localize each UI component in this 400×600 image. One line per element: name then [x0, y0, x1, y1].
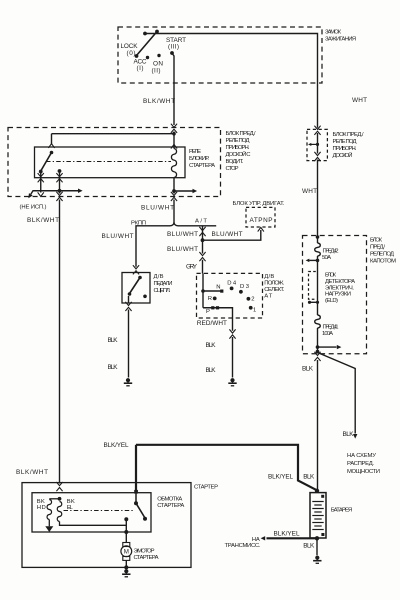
- svg-text:РЕЛЕ ПОД: РЕЛЕ ПОД: [333, 139, 357, 145]
- svg-text:BLK: BLK: [343, 431, 355, 438]
- svg-text:BLK/WHT: BLK/WHT: [27, 217, 59, 224]
- svg-text:РЕЛЕ ПОД: РЕЛЕ ПОД: [370, 252, 394, 258]
- svg-text:СЕЛЕКТ.: СЕЛЕКТ.: [264, 287, 284, 293]
- svg-text:ДОСКОЙ С: ДОСКОЙ С: [226, 150, 252, 158]
- svg-text:БЛОК: БЛОК: [370, 238, 383, 244]
- svg-text:ON: ON: [153, 61, 163, 68]
- svg-text:BLK: BLK: [302, 366, 314, 373]
- svg-text:БЛОК: БЛОК: [325, 273, 337, 279]
- svg-text:N: N: [216, 285, 220, 291]
- svg-text:ATPNP: ATPNP: [250, 217, 273, 224]
- svg-text:50А: 50А: [322, 255, 331, 261]
- svg-text:GRY: GRY: [186, 264, 198, 271]
- svg-text:БЛОК УПР. ДВИГАТ.: БЛОК УПР. ДВИГАТ.: [233, 201, 285, 207]
- svg-text:RED/WHT: RED/WHT: [197, 320, 227, 327]
- svg-text:АТ: АТ: [264, 293, 272, 299]
- svg-text:СЦЕПЛ.: СЦЕПЛ.: [154, 288, 171, 294]
- svg-text:R: R: [208, 296, 212, 302]
- svg-text:LOCK: LOCK: [121, 43, 139, 50]
- svg-text:ПРЕД.41: ПРЕД.41: [323, 325, 339, 331]
- svg-text:(НЕ ИСП.): (НЕ ИСП.): [20, 205, 47, 211]
- svg-text:ПРЕД./: ПРЕД./: [370, 245, 385, 251]
- svg-text:ОБМОТКА: ОБМОТКА: [157, 496, 182, 502]
- svg-text:ПОЛОЖ.: ПОЛОЖ.: [264, 280, 284, 286]
- svg-text:ЭЛЕКТРИЧ.: ЭЛЕКТРИЧ.: [325, 285, 354, 291]
- svg-text:БАТАРЕЯ: БАТАРЕЯ: [331, 507, 353, 513]
- svg-text:ПРИБОРН.: ПРИБОРН.: [226, 145, 250, 151]
- svg-text:BLK/YEL: BLK/YEL: [274, 531, 300, 538]
- svg-text:BLK: BLK: [108, 364, 119, 371]
- svg-text:БЛОК ПРЕД./: БЛОК ПРЕД./: [226, 131, 256, 137]
- svg-text:РЕЛЕ: РЕЛЕ: [189, 149, 201, 155]
- svg-text:M: M: [124, 549, 129, 556]
- svg-text:ДЕТЕКТОРА: ДЕТЕКТОРА: [325, 279, 355, 285]
- svg-text:BLK: BLK: [206, 342, 217, 349]
- svg-text:ТРАНСМИСС.: ТРАНСМИСС.: [225, 543, 261, 549]
- svg-text:(0): (0): [127, 50, 136, 57]
- svg-text:НА СХЕМУ: НА СХЕМУ: [347, 453, 376, 459]
- svg-text:BK: BK: [67, 499, 75, 505]
- svg-text:ДОСКОЙ: ДОСКОЙ: [333, 151, 353, 159]
- svg-text:BLK/YEL: BLK/YEL: [268, 474, 293, 481]
- svg-text:BLK/WHT: BLK/WHT: [143, 98, 175, 105]
- svg-text:ВОДИТ.: ВОДИТ.: [226, 159, 244, 165]
- svg-text:BLU/WHT: BLU/WHT: [167, 246, 198, 253]
- svg-text:РАСПРЕД.: РАСПРЕД.: [347, 461, 374, 467]
- svg-text:100А: 100А: [322, 331, 333, 337]
- svg-text:WHT: WHT: [302, 188, 317, 195]
- svg-text:СТОР: СТОР: [226, 166, 239, 172]
- svg-text:A/T: A/T: [195, 218, 207, 224]
- svg-text:НАГРУЗКИ: НАГРУЗКИ: [325, 292, 351, 298]
- svg-text:(II): (II): [152, 68, 161, 75]
- svg-text:BLK: BLK: [108, 337, 119, 344]
- svg-text:EL: EL: [67, 505, 74, 511]
- svg-text:РКПП: РКПП: [131, 220, 146, 226]
- svg-text:BLK: BLK: [303, 474, 315, 481]
- svg-text:D4: D4: [227, 281, 237, 287]
- svg-text:Д/В: Д/В: [264, 274, 274, 280]
- svg-text:BLU/WHT: BLU/WHT: [102, 233, 134, 240]
- svg-text:ЗАМОК: ЗАМОК: [325, 30, 342, 36]
- svg-text:D3: D3: [240, 284, 250, 290]
- svg-text:BLK: BLK: [206, 367, 217, 374]
- svg-text:МОЩНОСТИ: МОЩНОСТИ: [347, 469, 380, 475]
- svg-text:Д/В: Д/В: [154, 274, 164, 280]
- svg-text:(ELD): (ELD): [325, 298, 338, 304]
- svg-text:P: P: [206, 309, 210, 315]
- svg-text:2: 2: [251, 297, 254, 303]
- svg-text:Э/МОТОР: Э/МОТОР: [134, 549, 155, 555]
- svg-text:РЕЛЕ ПОД: РЕЛЕ ПОД: [226, 138, 250, 144]
- svg-text:СТАРТЕРА: СТАРТЕРА: [189, 163, 215, 169]
- svg-text:ПЕДАЛИ: ПЕДАЛИ: [154, 281, 173, 287]
- svg-text:СТАРТЕРА: СТАРТЕРА: [157, 503, 184, 509]
- svg-text:СТАРТЕР: СТАРТЕР: [194, 485, 218, 491]
- svg-text:(III): (III): [168, 44, 179, 51]
- svg-text:BLU/WHT: BLU/WHT: [141, 205, 174, 212]
- svg-text:HD: HD: [37, 505, 46, 511]
- svg-text:1: 1: [253, 307, 256, 313]
- svg-text:СТАРТЕРА: СТАРТЕРА: [134, 555, 159, 561]
- svg-text:КАПОТОМ: КАПОТОМ: [370, 259, 396, 265]
- svg-text:ЗАЖИГАНИЯ: ЗАЖИГАНИЯ: [325, 37, 356, 43]
- svg-text:WHT: WHT: [352, 97, 367, 104]
- svg-text:ПРЕД.42: ПРЕД.42: [323, 249, 339, 255]
- svg-text:BLK: BLK: [303, 543, 315, 550]
- svg-text:БЛОКИР.: БЛОКИР.: [189, 156, 209, 162]
- svg-text:(I): (I): [137, 65, 144, 72]
- svg-text:БЛОК ПРЕД./: БЛОК ПРЕД./: [333, 132, 364, 138]
- svg-text:BK: BK: [37, 499, 45, 505]
- svg-text:BLU/WHT: BLU/WHT: [167, 231, 198, 238]
- svg-text:ПРИБОРН.: ПРИБОРН.: [333, 146, 357, 152]
- svg-text:BLK/WHT: BLK/WHT: [16, 469, 48, 476]
- svg-text:BLK/YEL: BLK/YEL: [104, 442, 129, 449]
- svg-text:BLU/WHT: BLU/WHT: [212, 231, 243, 238]
